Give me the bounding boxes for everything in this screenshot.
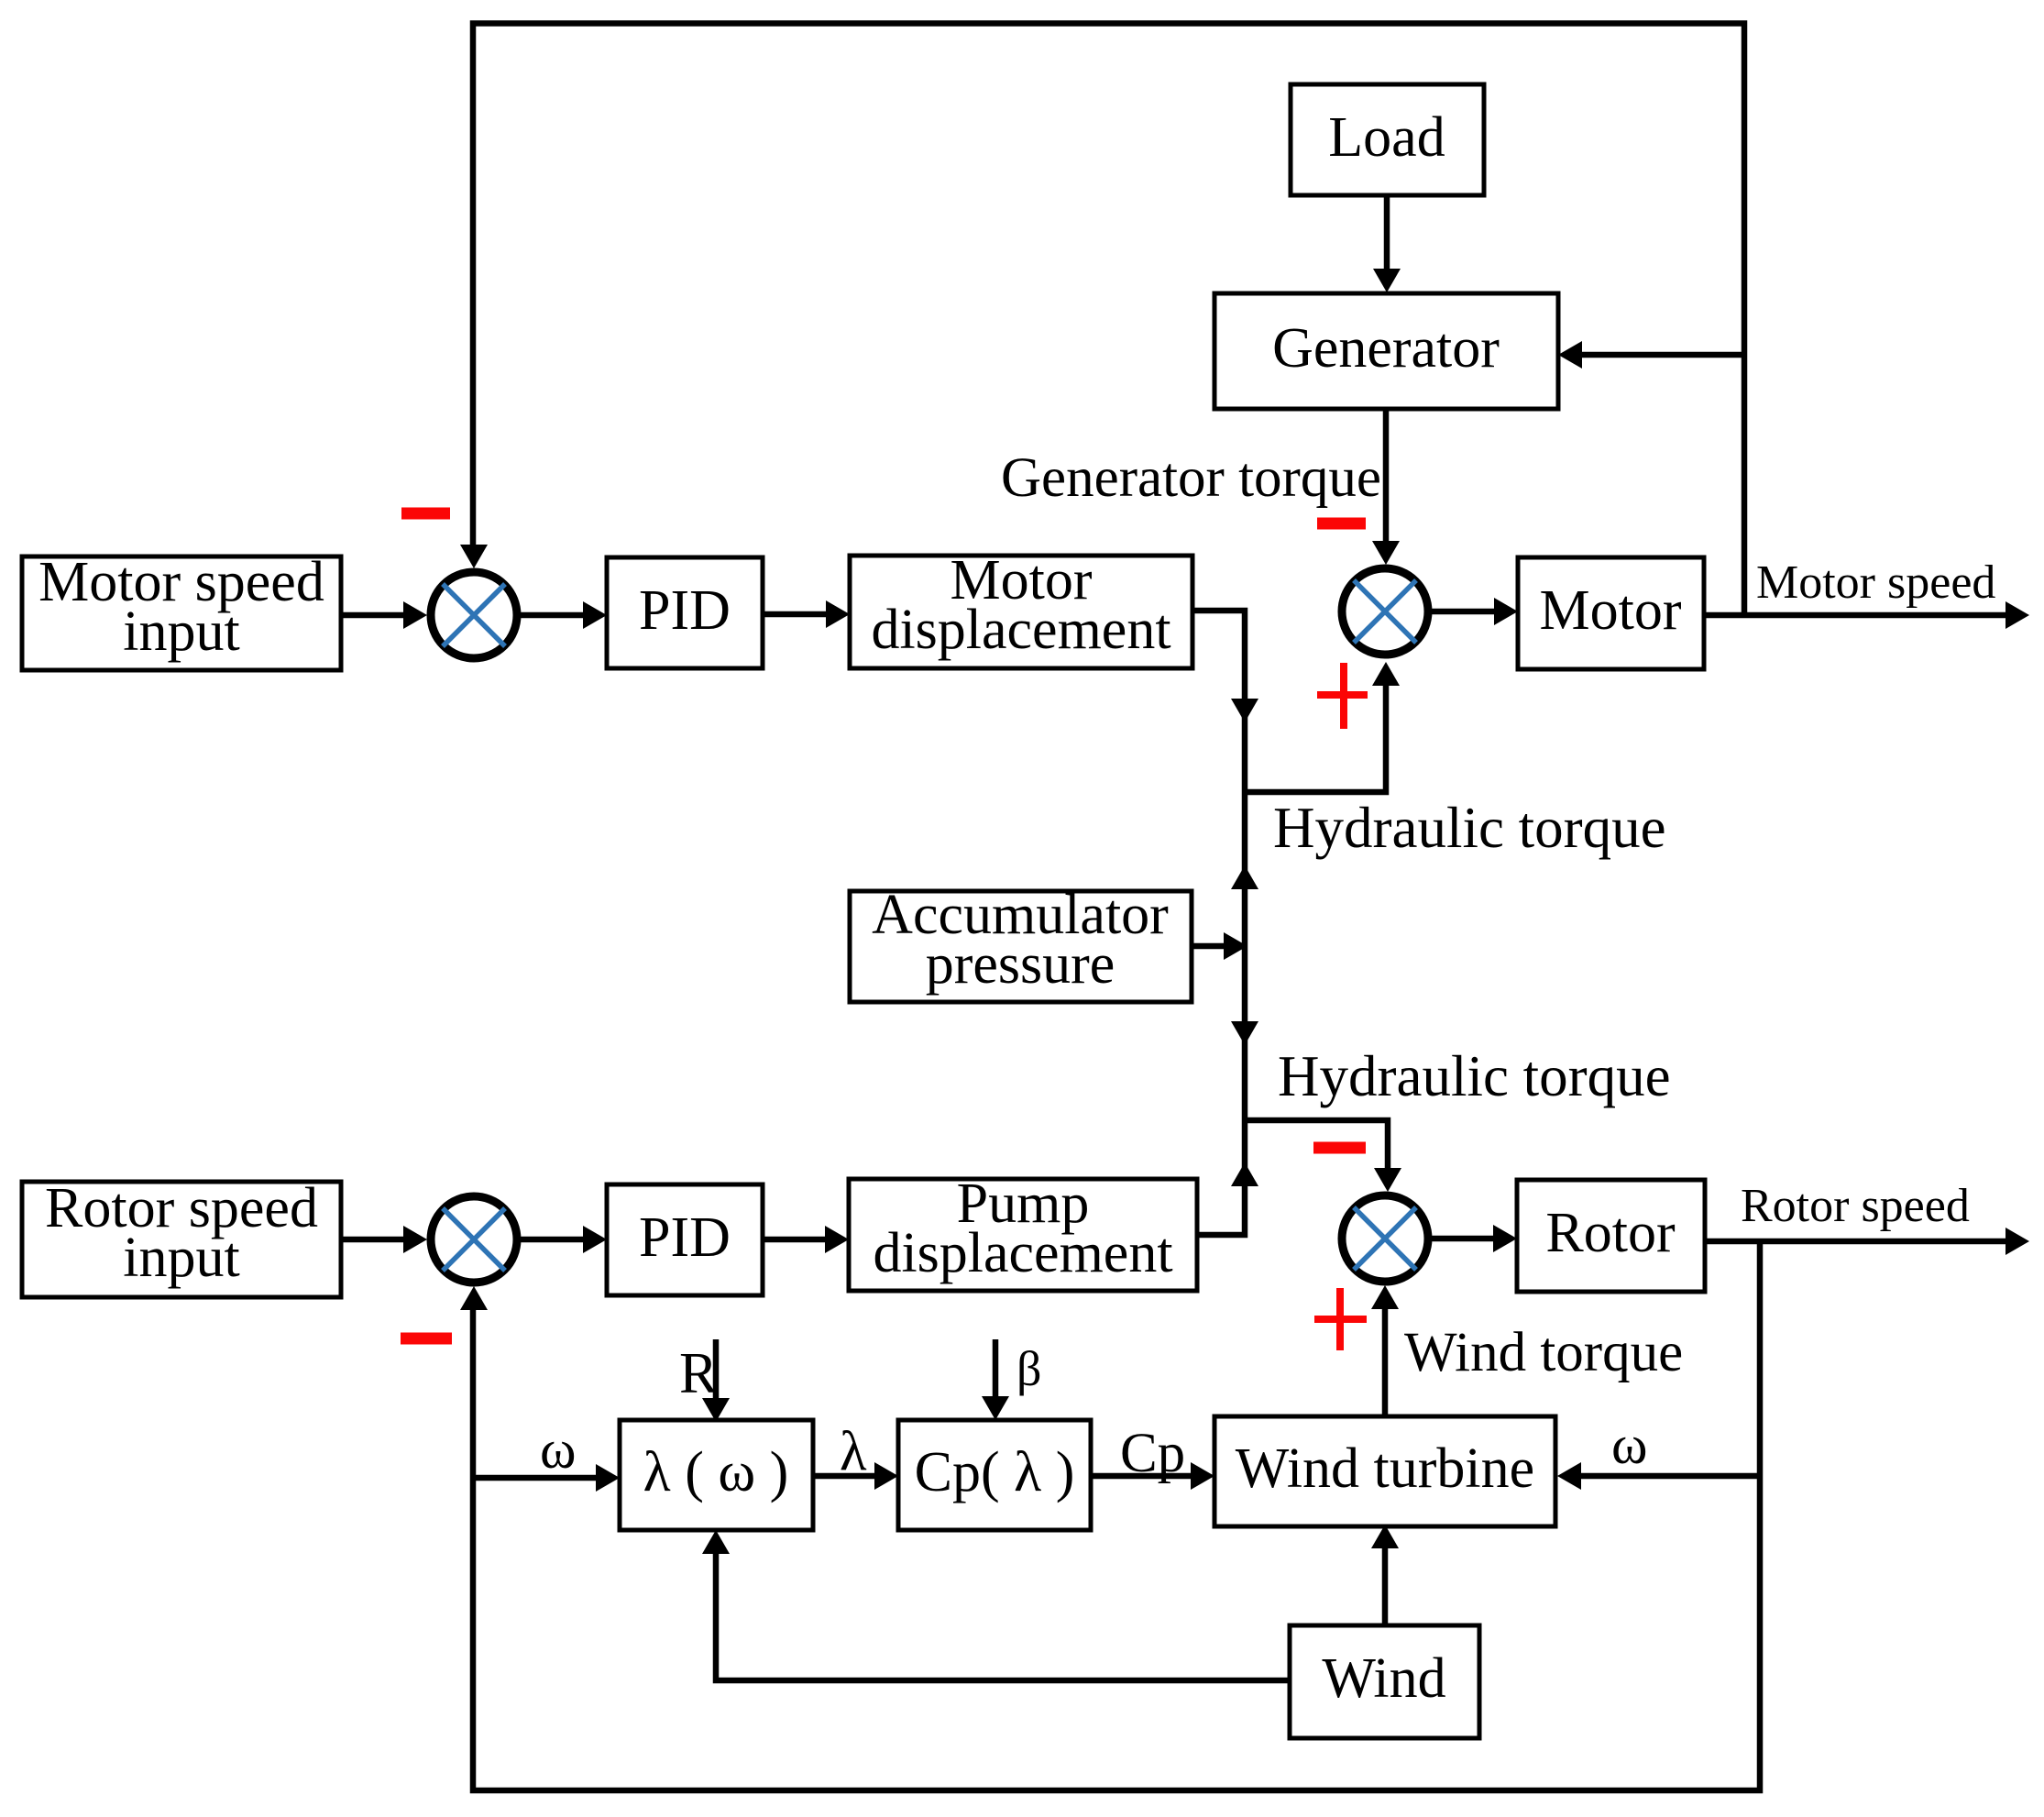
block: Motor displacement bbox=[850, 549, 1192, 668]
wire: hydraulic torque line (Motor displacement down to Pump displacement) bbox=[1192, 611, 1245, 1235]
svg-text:Motor speed: Motor speed bbox=[1756, 556, 1995, 609]
wire: beta input into Cp block bbox=[982, 1339, 1009, 1420]
label: Rotor speed bbox=[1741, 1180, 1970, 1232]
junction arrow: flow up on hydraulic line (above accumulator) bbox=[1231, 865, 1258, 889]
label: Motor speed bbox=[1756, 556, 1995, 609]
label: beta bbox=[1017, 1341, 1041, 1396]
svg-text:λ: λ bbox=[840, 1421, 867, 1482]
sign: plus at J4 bottom input bbox=[1314, 1288, 1367, 1350]
summing junction J3 bbox=[431, 1196, 517, 1283]
label: Wind torque bbox=[1404, 1322, 1683, 1383]
label: Cp bbox=[1120, 1423, 1185, 1484]
label: lambda bbox=[840, 1421, 867, 1482]
summing junction J1 bbox=[431, 572, 517, 658]
sign: minus at J4 top input bbox=[1313, 1142, 1366, 1154]
wire: J2 to Motor bbox=[1432, 598, 1518, 625]
svg-text:PID: PID bbox=[639, 579, 731, 642]
svg-text:ω: ω bbox=[540, 1419, 577, 1480]
block: Pump displacement bbox=[849, 1173, 1197, 1291]
wire: Rotor speed input to J3 bbox=[341, 1226, 427, 1253]
junction arrow: flow down on hydraulic line (below accumulator) bbox=[1231, 1021, 1258, 1045]
wire: Rotor speed output bbox=[1705, 1228, 2029, 1255]
block: Motor speed input bbox=[22, 551, 341, 670]
svg-text:Hydraulic torque: Hydraulic torque bbox=[1273, 796, 1666, 860]
svg-text:input: input bbox=[123, 600, 239, 663]
block: Load bbox=[1291, 84, 1484, 195]
junction arrow: flow up on hydraulic line (above pump) bbox=[1231, 1162, 1258, 1186]
label: omega (left) bbox=[540, 1419, 577, 1480]
svg-text:PID: PID bbox=[639, 1206, 731, 1269]
label: Hydraulic torque (lower) bbox=[1278, 1044, 1671, 1108]
sign: plus at J2 bottom input bbox=[1317, 663, 1368, 729]
block: PID (rotor loop) bbox=[607, 1184, 763, 1295]
wire: motor speed feedback into Generator bbox=[1558, 341, 1744, 369]
svg-text:Wind turbine: Wind turbine bbox=[1236, 1437, 1534, 1500]
svg-text:Rotor speed: Rotor speed bbox=[1741, 1180, 1970, 1232]
wire: J1 to PID bbox=[521, 601, 607, 629]
svg-text:ω: ω bbox=[1611, 1415, 1648, 1475]
wire: lambda block to Cp block bbox=[813, 1462, 898, 1490]
wire: omega branch to lambda block bbox=[473, 1464, 620, 1492]
block: Rotor bbox=[1517, 1180, 1705, 1292]
block: Generator bbox=[1214, 293, 1558, 409]
svg-text:Wind: Wind bbox=[1322, 1647, 1445, 1710]
label: omega (right) bbox=[1611, 1415, 1648, 1475]
sign: minus at J2 top input bbox=[1317, 518, 1366, 530]
svg-text:Rotor: Rotor bbox=[1545, 1202, 1676, 1264]
svg-text:pressure: pressure bbox=[926, 933, 1115, 996]
block: Accumulator pressure bbox=[850, 884, 1192, 1002]
svg-text:λ ( ω ): λ ( ω ) bbox=[643, 1441, 789, 1503]
svg-text:displacement: displacement bbox=[873, 1222, 1172, 1284]
svg-text:displacement: displacement bbox=[871, 599, 1170, 661]
wire: Load to Generator bbox=[1373, 195, 1401, 292]
summing junction J4 bbox=[1342, 1195, 1428, 1282]
svg-text:Generator torque: Generator torque bbox=[1001, 447, 1381, 509]
svg-text:Hydraulic torque: Hydraulic torque bbox=[1278, 1044, 1671, 1108]
wire: Wind torque to J4 plus input bbox=[1371, 1285, 1399, 1416]
label: R bbox=[679, 1341, 718, 1405]
wire: rotor speed omega feed into Wind turbine bbox=[1557, 1462, 1760, 1490]
summing junction J2 bbox=[1342, 568, 1428, 655]
wire: branch to J4 minus input bbox=[1245, 1120, 1401, 1192]
wire: Wind to Wind turbine bbox=[1371, 1525, 1399, 1625]
wire: Wind to lambda block feedback bbox=[702, 1530, 1290, 1680]
block: lambda(omega) bbox=[620, 1420, 813, 1530]
block: PID (motor loop) bbox=[607, 557, 763, 668]
wire: PID to Motor displacement bbox=[763, 600, 850, 628]
block: Motor bbox=[1518, 557, 1704, 669]
junction arrow: flow down on hydraulic line (upper) bbox=[1231, 699, 1258, 722]
svg-text:Generator: Generator bbox=[1272, 317, 1500, 380]
wire: Motor speed input to J1 bbox=[341, 601, 427, 629]
block: Cp(lambda) bbox=[898, 1420, 1091, 1530]
svg-text:input: input bbox=[123, 1227, 239, 1289]
label: Generator torque bbox=[1001, 447, 1381, 509]
svg-text:Wind torque: Wind torque bbox=[1404, 1322, 1683, 1383]
svg-text:Load: Load bbox=[1328, 106, 1445, 169]
wire: J3 to PID (rotor loop) bbox=[521, 1226, 607, 1253]
wire: bottom feedback loop (rotor speed to J3 minus input) bbox=[460, 1241, 1760, 1790]
sign: minus at J1 top input bbox=[401, 508, 450, 520]
svg-text:β: β bbox=[1017, 1341, 1041, 1396]
block: Wind turbine bbox=[1214, 1416, 1555, 1526]
svg-text:Motor: Motor bbox=[1540, 579, 1682, 642]
svg-text:Cp( λ ): Cp( λ ) bbox=[915, 1441, 1075, 1503]
wire: PID to Pump displacement bbox=[763, 1226, 849, 1253]
wire: Motor speed output bbox=[1704, 601, 2029, 629]
block: Wind bbox=[1290, 1625, 1479, 1738]
block: Rotor speed input bbox=[22, 1177, 341, 1297]
wire: J4 to Rotor bbox=[1432, 1225, 1517, 1252]
wire: Accumulator pressure to hydraulic line bbox=[1192, 932, 1247, 960]
wire: branch to J2 plus input bbox=[1245, 662, 1400, 792]
wire: R input into lambda block bbox=[702, 1339, 730, 1422]
svg-text:Cp: Cp bbox=[1120, 1423, 1185, 1484]
wire: Generator torque to J2 minus input bbox=[1372, 409, 1400, 565]
sign: minus at J3 bottom input bbox=[401, 1333, 452, 1345]
label: Hydraulic torque (upper) bbox=[1273, 796, 1666, 860]
wire: top feedback loop (motor speed to J1 minus input) bbox=[460, 24, 1744, 616]
svg-text:R: R bbox=[679, 1341, 718, 1405]
wire: Cp block to Wind turbine bbox=[1091, 1462, 1214, 1490]
